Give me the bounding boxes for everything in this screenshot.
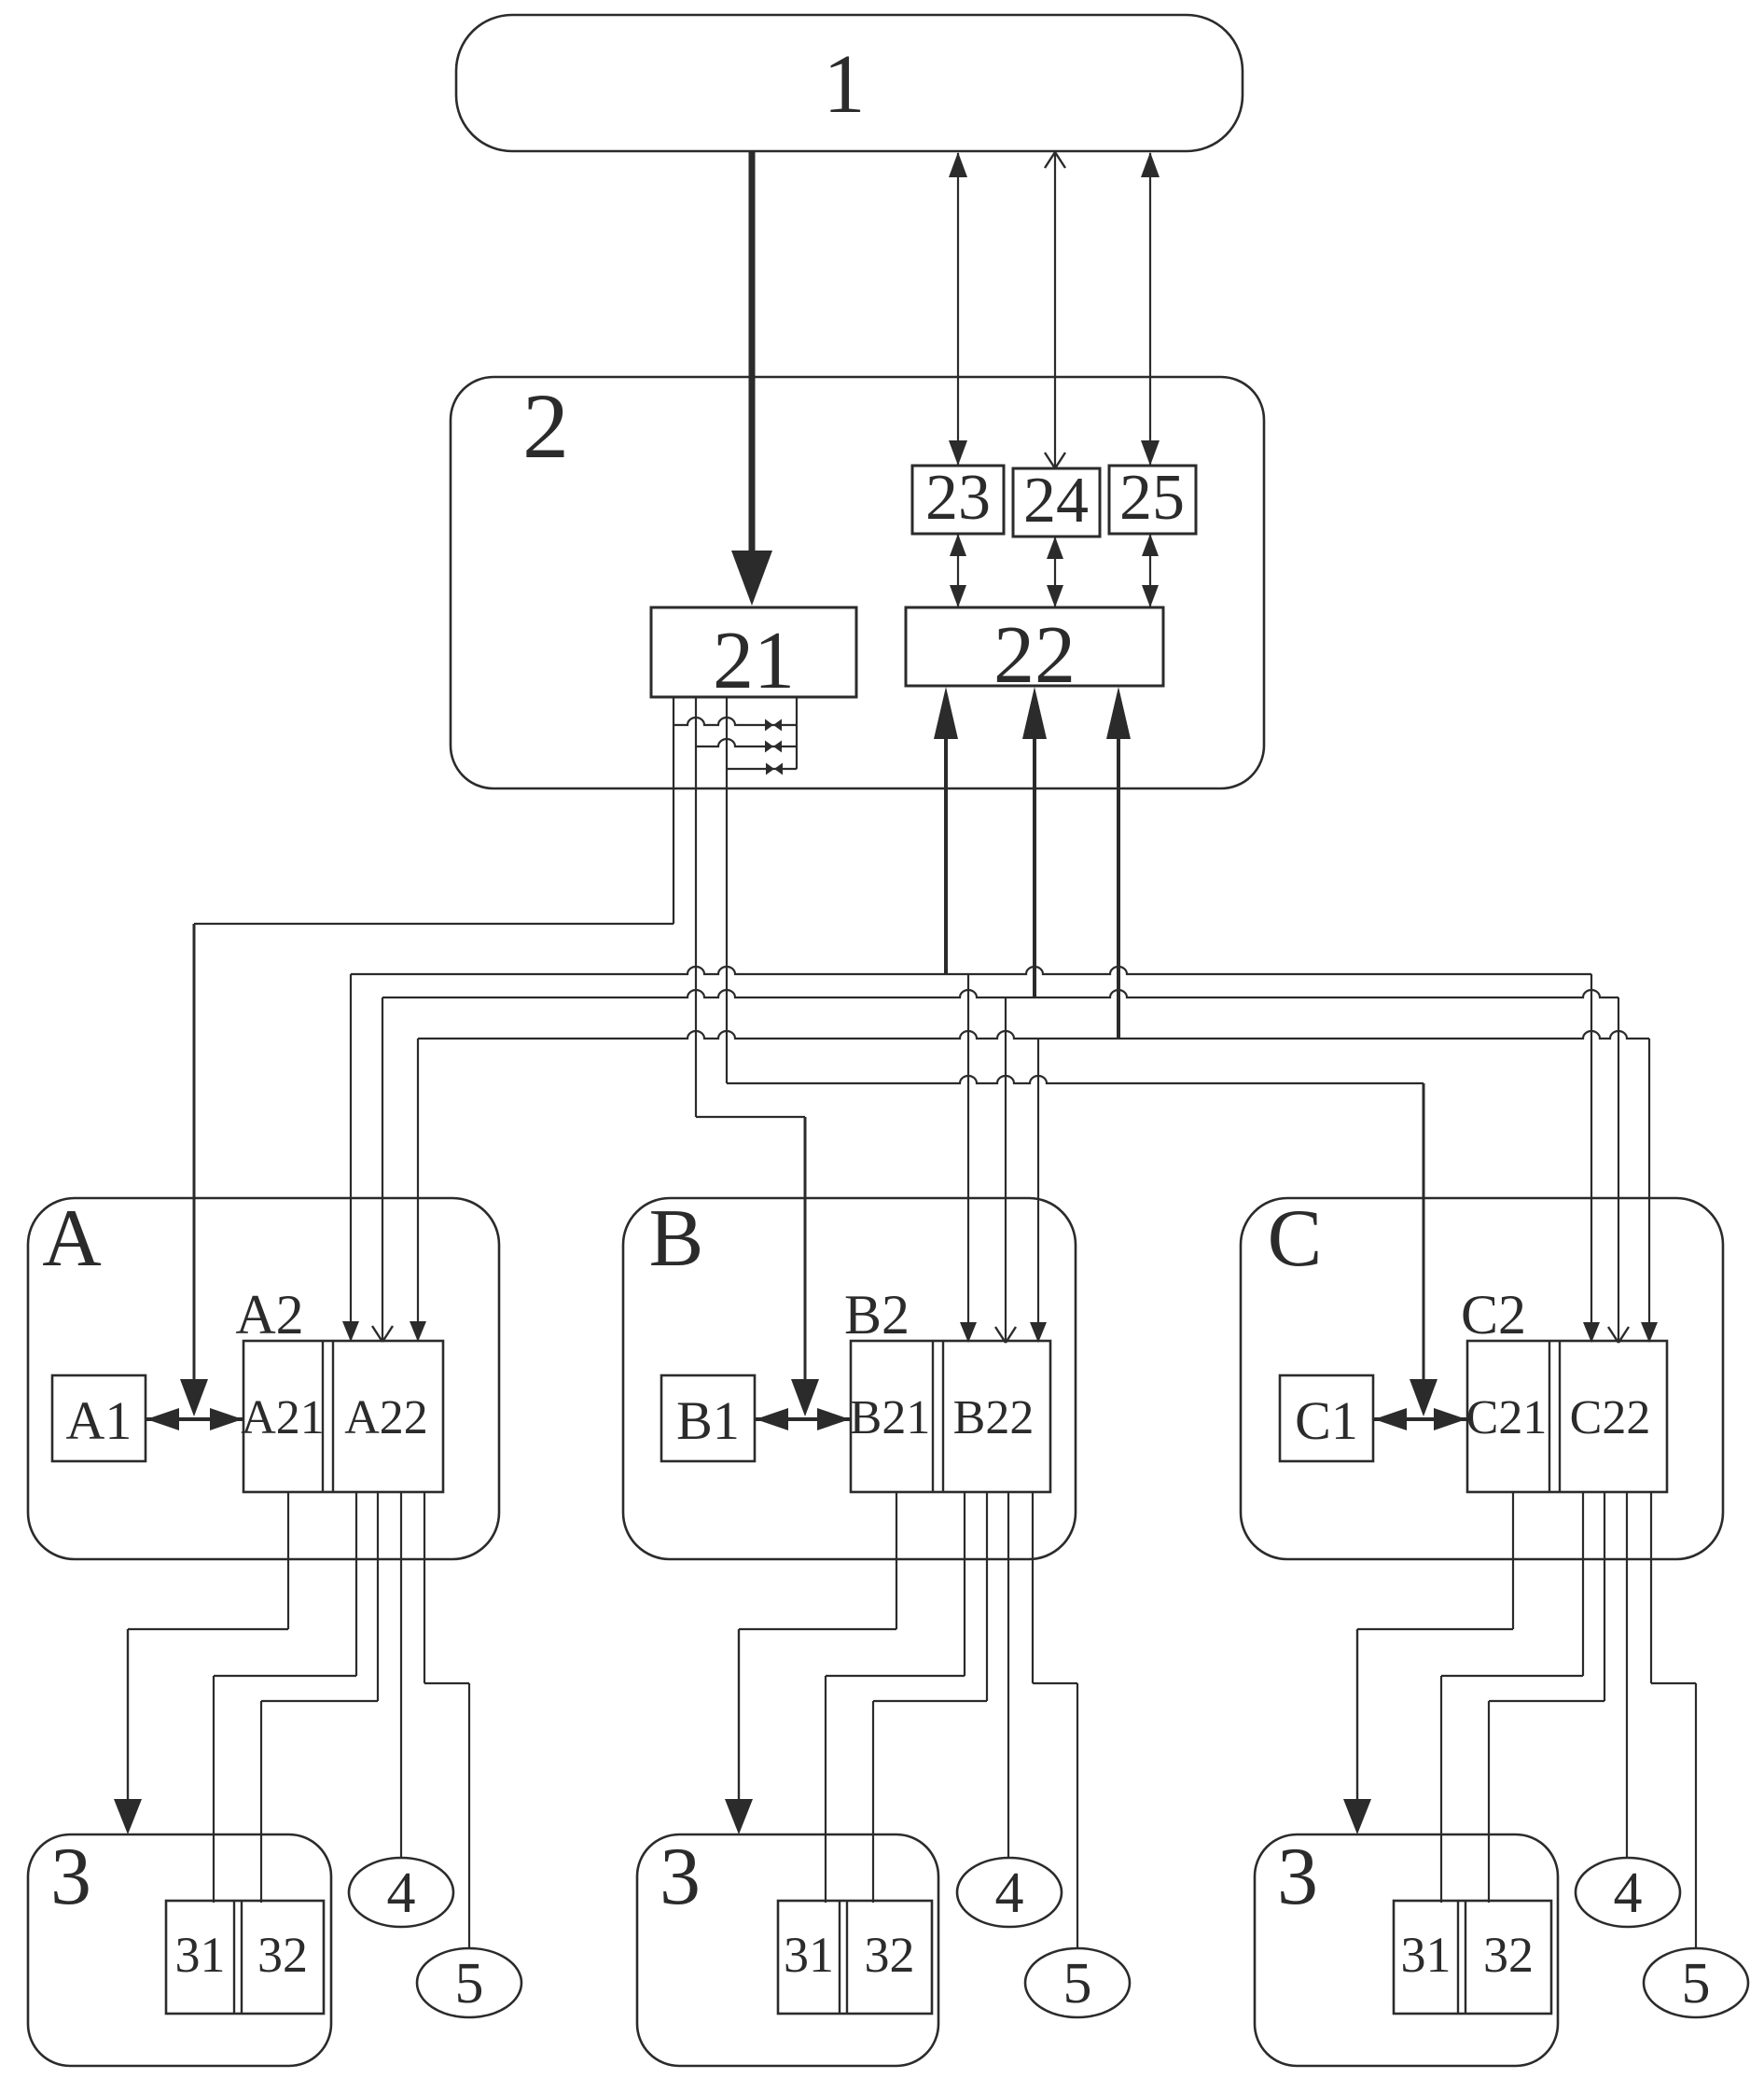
21 output pins with break symbols xyxy=(673,697,674,924)
bus 2 drop to B22 (V head) xyxy=(1005,997,1007,1342)
svg-text:4: 4 xyxy=(387,1862,416,1925)
bus 1 horizontal xyxy=(351,967,1591,974)
svg-text:31: 31 xyxy=(784,1927,834,1983)
divider 31/32 xyxy=(233,1901,235,2014)
section C rounded frame xyxy=(1241,1198,1723,1559)
box 24 xyxy=(1013,468,1100,537)
pin A22 c to ellipse 4 xyxy=(400,1492,402,1858)
svg-text:B1: B1 xyxy=(676,1390,740,1451)
box A1 xyxy=(52,1375,146,1461)
wire 21 to section C (power) xyxy=(727,1076,1424,1083)
svg-text:B22: B22 xyxy=(953,1391,1035,1444)
box 31/32 of section C xyxy=(1394,1901,1551,2014)
svg-text:A2: A2 xyxy=(235,1284,303,1346)
svg-text:31: 31 xyxy=(1401,1927,1451,1983)
thick feedback arrow into 22 (B) xyxy=(1033,737,1036,997)
svg-text:1: 1 xyxy=(824,38,866,131)
svg-text:32: 32 xyxy=(257,1927,308,1983)
svg-text:21: 21 xyxy=(713,616,795,706)
divider 31/32 xyxy=(839,1901,840,2014)
pin C21 bottom to box 3 xyxy=(1512,1492,1514,1629)
rail 3 under 21 xyxy=(727,768,797,770)
box 22 xyxy=(906,607,1163,686)
box B1 xyxy=(661,1375,755,1461)
svg-text:5: 5 xyxy=(455,1952,484,2015)
ellipse 5 of section B xyxy=(1025,1948,1130,2017)
svg-text:A21: A21 xyxy=(241,1391,325,1444)
divider C21/C22 xyxy=(1549,1341,1550,1492)
bus 3 drop to A22 xyxy=(417,1039,419,1340)
svg-text:A1: A1 xyxy=(66,1390,132,1451)
wire 21 to section B (power) xyxy=(696,1116,805,1118)
box 23 xyxy=(912,466,1004,534)
svg-text:A22: A22 xyxy=(344,1391,428,1444)
svg-text:C21: C21 xyxy=(1466,1391,1548,1444)
svg-text:2: 2 xyxy=(522,374,569,478)
pin B22 b to 32 xyxy=(986,1492,988,1701)
svg-text:C22: C22 xyxy=(1570,1391,1651,1444)
bus 2 drop to C22 (V head) xyxy=(1618,997,1619,1342)
divider B21/B22 xyxy=(932,1341,934,1492)
pin A22 b to 32 xyxy=(377,1492,379,1701)
svg-text:C: C xyxy=(1268,1193,1323,1284)
svg-text:4: 4 xyxy=(1614,1862,1643,1925)
box A2 (split A21/A22) xyxy=(243,1341,443,1492)
box C2 (split C21/C22) xyxy=(1467,1341,1667,1492)
svg-text:31: 31 xyxy=(175,1927,226,1983)
box 21 xyxy=(651,607,856,697)
bus 2 drop to A22 (V head) xyxy=(382,997,383,1341)
bus 3 drop to C22 xyxy=(1648,1039,1650,1341)
pin A22 d to ellipse 5 xyxy=(424,1492,425,1683)
svg-text:B2: B2 xyxy=(844,1284,910,1346)
wire double arrow 1-24 (open V heads) xyxy=(1054,152,1056,467)
svg-text:A: A xyxy=(42,1193,102,1284)
wire double arrow 23-22 xyxy=(957,535,959,607)
wire double arrow 25-22 xyxy=(1149,535,1151,607)
pin B22 a to 31 xyxy=(964,1492,965,1676)
svg-text:B21: B21 xyxy=(850,1391,931,1444)
svg-text:3: 3 xyxy=(1277,1832,1318,1922)
ellipse 4 of section C xyxy=(1576,1858,1680,1927)
box 3 of section C xyxy=(1255,1834,1558,2066)
double arrow A1-A21 xyxy=(146,1417,243,1421)
bus 3 drop to B22 xyxy=(1037,1039,1039,1341)
box 3 of section A xyxy=(28,1834,331,2066)
section B rounded frame xyxy=(623,1198,1076,1559)
pin C22 a to 31 xyxy=(1582,1492,1584,1676)
svg-text:C2: C2 xyxy=(1461,1284,1526,1346)
svg-text:32: 32 xyxy=(865,1927,915,1983)
pin B22 d to ellipse 5 xyxy=(1032,1492,1034,1683)
box 1 (top controller) xyxy=(456,15,1243,151)
double arrow C1-C21 xyxy=(1373,1417,1467,1421)
rail 1 under 21 xyxy=(674,718,797,725)
bus 1 drop to A22 xyxy=(350,974,352,1340)
box 31/32 of section A xyxy=(166,1901,324,2014)
ellipse 5 of section C xyxy=(1644,1948,1748,2017)
divider A21/A22 xyxy=(322,1341,324,1492)
ellipse 4 of section A xyxy=(349,1858,453,1927)
svg-text:25: 25 xyxy=(1119,462,1185,534)
wire thick arrow 1 to 21 xyxy=(749,151,756,552)
pin A22 a to 31 xyxy=(355,1492,357,1676)
wire double arrow 24-22 xyxy=(1054,537,1056,607)
ellipse 4 of section B xyxy=(957,1858,1062,1927)
svg-text:3: 3 xyxy=(50,1832,91,1922)
wire double arrow 1-25 xyxy=(1149,153,1151,465)
box 31/32 of section B xyxy=(778,1901,932,2014)
box C1 xyxy=(1280,1375,1373,1461)
pin C22 b to 32 xyxy=(1604,1492,1605,1701)
wire 21 to section A (power) xyxy=(194,923,674,925)
wire double arrow 1-23 xyxy=(957,153,959,465)
bus 2 horizontal xyxy=(382,990,1618,997)
svg-text:3: 3 xyxy=(660,1832,701,1922)
double arrow B1-B21 xyxy=(755,1417,851,1421)
pin C22 d to ellipse 5 xyxy=(1650,1492,1652,1683)
svg-text:4: 4 xyxy=(995,1862,1024,1925)
box B2 (split B21/B22) xyxy=(851,1341,1050,1492)
ellipse 5 of section A xyxy=(417,1948,521,2017)
bus 1 drop to B22 xyxy=(967,974,969,1341)
pin B21 bottom to box 3 xyxy=(896,1492,897,1629)
pin C22 c to ellipse 4 xyxy=(1626,1492,1628,1858)
svg-text:5: 5 xyxy=(1063,1952,1092,2015)
divider 31/32 xyxy=(1457,1901,1459,2014)
svg-text:B: B xyxy=(649,1193,704,1284)
svg-text:32: 32 xyxy=(1483,1927,1534,1983)
svg-text:23: 23 xyxy=(925,462,991,534)
svg-text:C1: C1 xyxy=(1295,1390,1358,1451)
box 2 (cabinet) xyxy=(451,377,1264,788)
bus 1 drop to C22 xyxy=(1590,974,1592,1341)
pin A21 bottom to box 3 xyxy=(287,1492,289,1629)
svg-text:24: 24 xyxy=(1023,465,1089,537)
svg-text:5: 5 xyxy=(1682,1952,1711,2015)
section A rounded frame xyxy=(28,1198,499,1559)
pin B22 c to ellipse 4 xyxy=(1007,1492,1009,1858)
rail 2 under 21 xyxy=(696,739,797,746)
bus 3 horizontal xyxy=(418,1031,1649,1039)
box 25 xyxy=(1109,466,1196,534)
box 3 of section B xyxy=(637,1834,938,2066)
thick feedback arrow into 22 (C) xyxy=(1117,737,1120,1039)
thick feedback arrow into 22 (A) xyxy=(944,737,948,974)
